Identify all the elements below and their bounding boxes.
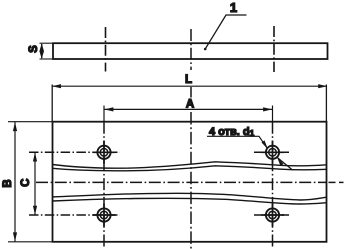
horizontal center axis	[36, 181, 327, 183]
upper holes horizontal centerline left	[29, 151, 120, 153]
hole bottom-right cross	[261, 204, 284, 227]
hole top-right inner	[269, 149, 277, 157]
svg-text:B: B	[2, 179, 14, 187]
hole top-right cross	[261, 141, 284, 164]
centerline right hole, side view	[273, 26, 275, 72]
svg-text:A: A	[186, 99, 194, 111]
hole bottom-left outer	[97, 208, 110, 221]
lower wave line 2	[53, 198, 327, 204]
dimension C line	[34, 152, 36, 215]
dimension A arrowheads	[104, 107, 272, 111]
hole callout shelf line	[207, 136, 267, 147]
svg-text:S: S	[28, 45, 40, 53]
position leader 1 dot	[204, 48, 207, 51]
hole bottom-right outer	[266, 208, 279, 221]
upper wave line 1	[53, 162, 327, 168]
L extension tick right	[325, 85, 327, 122]
upper holes horizontal centerline right	[254, 151, 289, 153]
S extension line top	[40, 42, 54, 44]
plate side view outline	[53, 43, 328, 59]
dimension B line	[14, 122, 16, 242]
B extension line top	[8, 121, 53, 123]
left holes vertical centerline	[103, 122, 105, 248]
hole top-right outer	[266, 146, 279, 159]
upper wave line 2	[53, 166, 327, 171]
dimension L arrowheads	[52, 84, 327, 88]
lower wave line 1	[53, 193, 327, 200]
centerline left hole, side view	[105, 27, 107, 72]
A extension line right	[272, 106, 274, 122]
dimension C arrowheads	[33, 153, 37, 215]
right holes vertical centerline	[272, 122, 274, 248]
hole bottom-left inner	[100, 211, 108, 219]
dimension A line	[104, 108, 273, 110]
lower holes horizontal centerline left	[29, 214, 120, 216]
dimension S arrowheads	[39, 43, 44, 58]
position leader 1 line	[205, 15, 247, 49]
svg-text:L: L	[185, 74, 192, 86]
vertical center axis, side view part	[190, 29, 192, 70]
hole bottom-left cross	[93, 204, 116, 227]
dimension S arrow line	[41, 44, 43, 58]
hole callout arrow upper	[262, 140, 268, 149]
plate plan view outline	[53, 122, 327, 242]
horizontal center axis dash past right edge	[329, 181, 336, 183]
B extension line bottom	[8, 241, 53, 243]
L extension tick left	[51, 85, 53, 122]
hole callout arrow lower	[277, 157, 283, 166]
hole top-left outer	[97, 146, 110, 159]
svg-text:4 отв. d1: 4 отв. d1	[209, 126, 255, 138]
vertical center axis, plan view part	[190, 112, 192, 249]
vertical center axis, dot	[190, 101, 192, 103]
hole callout lower segment	[277, 158, 292, 171]
hole top-left cross	[93, 141, 116, 164]
vertical center axis, dash between L and A	[190, 87, 192, 98]
svg-text:C: C	[20, 179, 32, 187]
dimension L line	[53, 85, 327, 87]
horizontal center axis end dash	[339, 181, 344, 183]
A extension line left	[103, 106, 105, 122]
S extension line bottom	[40, 58, 54, 60]
lower holes horizontal centerline right	[254, 214, 289, 216]
dimension B arrowheads	[13, 122, 17, 241]
hole bottom-right inner	[269, 211, 277, 219]
hole top-left inner	[100, 149, 108, 157]
svg-text:1: 1	[230, 0, 237, 15]
